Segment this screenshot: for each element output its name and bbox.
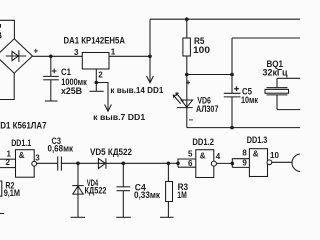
label C5 bbox=[241, 87, 258, 105]
connector circle right edge bbox=[292, 154, 310, 172]
svg-text:+: + bbox=[186, 78, 191, 87]
wire to DD1.2 input split bbox=[168, 162, 178, 164]
svg-text:+: + bbox=[34, 47, 39, 56]
wire to pin14 DD1 arrow bbox=[147, 56, 154, 82]
resistor R5 bbox=[183, 19, 191, 74]
svg-text:5: 5 bbox=[188, 150, 193, 159]
LED VD6 bbox=[173, 75, 192, 128]
label pin6 bbox=[188, 159, 193, 168]
svg-text:0,68мк: 0,68мк bbox=[48, 143, 74, 153]
node DD1.2 input junction bbox=[176, 162, 180, 166]
svg-text:1М: 1М bbox=[177, 190, 187, 200]
svg-text:6: 6 bbox=[188, 159, 193, 168]
svg-text:0,33мк: 0,33мк bbox=[134, 190, 160, 200]
wire to pin7 DD1 arrow bbox=[96, 83, 111, 112]
label BQ1 bbox=[263, 59, 288, 78]
svg-text:3: 3 bbox=[74, 48, 79, 57]
svg-text:х25В: х25В bbox=[61, 86, 82, 96]
label pin9 bbox=[242, 158, 247, 167]
svg-text:DD1.3: DD1.3 bbox=[247, 135, 267, 145]
svg-text:АЛ307: АЛ307 bbox=[196, 104, 219, 114]
label B input bbox=[0, 31, 3, 41]
gate DD1.3 bbox=[249, 149, 267, 177]
svg-text:С1: С1 bbox=[61, 67, 71, 77]
wire pin5 bbox=[178, 159, 196, 167]
ground C1 bbox=[45, 100, 58, 102]
wire top right stub bbox=[232, 37, 300, 39]
label C4 bbox=[134, 183, 160, 201]
ground R2 bbox=[0, 213, 4, 215]
svg-text:DD1.1: DD1.1 bbox=[11, 138, 31, 148]
ground R3 bbox=[160, 216, 174, 218]
wire pin8 bbox=[232, 159, 249, 168]
crystal BQ1 bbox=[265, 78, 289, 109]
capacitor C3 bbox=[58, 156, 62, 170]
wire BQ1 bottom to edge bbox=[277, 109, 300, 111]
node C4 junction bbox=[122, 162, 126, 166]
svg-text:2: 2 bbox=[6, 158, 11, 167]
label R3 bbox=[177, 182, 188, 200]
svg-text:+: + bbox=[234, 85, 239, 94]
wire C5 branch vertical bbox=[231, 38, 233, 93]
label к выв.14 DD1 bbox=[110, 86, 164, 95]
wire C3 to node bbox=[61, 162, 78, 164]
node C5 top junction bbox=[230, 73, 234, 77]
label + bridge bbox=[34, 47, 39, 56]
capacitor C1 bbox=[43, 56, 59, 100]
svg-text:32кГц: 32кГц bbox=[263, 68, 288, 78]
svg-text:100: 100 bbox=[193, 45, 210, 55]
ground DA1 bbox=[90, 83, 104, 92]
label amp DD1.2 bbox=[200, 151, 206, 160]
wire bridge + output bbox=[32, 55, 82, 57]
svg-text:8: 8 bbox=[242, 148, 247, 157]
label amp DD1.3 bbox=[253, 149, 259, 158]
capacitor C5 bbox=[224, 86, 241, 127]
node R5 top junction bbox=[185, 17, 189, 21]
node R3 junction bbox=[167, 162, 171, 166]
svg-text:4: 4 bbox=[216, 152, 221, 161]
ground C4 bbox=[116, 216, 131, 218]
label pin3 bbox=[35, 154, 40, 163]
wire DD1.3 output bbox=[272, 161, 292, 163]
label pin3 DA1 bbox=[74, 48, 79, 57]
label к выв.7 DD1 bbox=[93, 113, 146, 122]
label pin2 bbox=[6, 158, 11, 167]
label VD4 bbox=[85, 178, 107, 196]
gate DD1.1 bbox=[16, 150, 35, 178]
svg-text:9: 9 bbox=[242, 158, 247, 167]
gate DD1.2 bbox=[196, 150, 214, 178]
bridge diode symbol bbox=[6, 50, 27, 62]
svg-text:10: 10 bbox=[270, 151, 279, 160]
node junction C1 bbox=[49, 55, 53, 59]
wire pin2 down bbox=[95, 69, 97, 83]
label pin4 bbox=[216, 152, 221, 161]
label VD5 bbox=[90, 147, 132, 157]
wire AC input top-left bbox=[0, 20, 14, 39]
label DD1.2 bbox=[192, 137, 214, 147]
wire pin1 input bbox=[0, 158, 16, 160]
svg-text:VD5 КД522: VD5 КД522 bbox=[90, 147, 132, 157]
ground VD4 bbox=[71, 216, 85, 218]
resistor R2 bbox=[0, 181, 2, 196]
wire BQ1 top to edge bbox=[277, 77, 300, 79]
label pin1 DA1 bbox=[111, 48, 116, 57]
diode VD4 bbox=[72, 163, 83, 217]
wire DD1.2 output bbox=[216, 162, 232, 164]
svg-text:DD1.2: DD1.2 bbox=[192, 137, 214, 147]
wire up to top rail bbox=[149, 19, 151, 56]
resistor R3 bbox=[166, 163, 173, 217]
label pin5 bbox=[188, 150, 193, 159]
wire top power rail bbox=[150, 18, 300, 20]
wire pin1 output bbox=[109, 55, 150, 57]
svg-text:к выв.14 DD1: к выв.14 DD1 bbox=[110, 86, 164, 95]
wire R5 to C5 branch bbox=[187, 74, 232, 76]
node DD1.3 input junction bbox=[231, 162, 235, 166]
svg-text:3: 3 bbox=[35, 154, 40, 163]
label - LED bbox=[189, 116, 194, 125]
label VD6 bbox=[196, 95, 219, 114]
label DD1 type bbox=[0, 120, 47, 130]
label + C5 bbox=[234, 85, 239, 94]
capacitor C4 bbox=[117, 163, 131, 217]
wire pin9 bbox=[232, 166, 249, 168]
bridge rectifier VD1 diamond bbox=[0, 39, 32, 73]
label DD1.3 bbox=[247, 135, 267, 145]
pin3 bubble DD1.1 bbox=[32, 161, 37, 166]
svg-text:DD1 К561ЛА7: DD1 К561ЛА7 bbox=[0, 120, 47, 130]
wire DD1.1 output bbox=[37, 162, 58, 164]
label + LED bbox=[186, 78, 191, 87]
regulator DA1 box bbox=[82, 53, 109, 70]
label DD1.1 bbox=[11, 138, 31, 148]
svg-text:КД522: КД522 bbox=[85, 186, 107, 196]
svg-text:9,1М: 9,1М bbox=[4, 188, 20, 198]
label pin10 bbox=[270, 151, 279, 160]
node R5 bottom junction bbox=[185, 73, 189, 77]
node main plus junction bbox=[148, 55, 152, 59]
label R2 bbox=[4, 181, 20, 198]
node VD4 junction bbox=[76, 162, 80, 166]
svg-text:к выв.7 DD1: к выв.7 DD1 bbox=[93, 113, 146, 122]
svg-text:DA1 КР142ЕН5А: DA1 КР142ЕН5А bbox=[64, 36, 126, 46]
label C1 bbox=[61, 67, 87, 96]
svg-text:&: & bbox=[253, 149, 259, 158]
svg-text:−: − bbox=[189, 116, 194, 125]
svg-text:&: & bbox=[200, 151, 206, 160]
svg-text:10мк: 10мк bbox=[241, 95, 258, 105]
node pin2 junction bbox=[95, 81, 99, 85]
wire bridge bottom lead bbox=[0, 73, 14, 99]
label pin2 DA1 bbox=[98, 71, 103, 80]
wire pin6 bbox=[178, 166, 196, 168]
svg-text:2: 2 bbox=[98, 71, 103, 80]
pin10 bubble DD1.3 bbox=[267, 160, 272, 165]
label C3 bbox=[48, 136, 74, 153]
wire pin2 input bbox=[0, 167, 16, 169]
svg-text:1: 1 bbox=[111, 48, 116, 57]
label pin8 bbox=[242, 148, 247, 157]
node AC tick bbox=[0, 24, 2, 28]
pin4 bubble DD1.2 bbox=[211, 161, 216, 166]
svg-text:&: & bbox=[19, 151, 25, 160]
label DA1 bbox=[64, 36, 126, 46]
diode VD5 bbox=[78, 158, 168, 168]
node C5 rail junction bbox=[230, 126, 234, 130]
label R5 bbox=[193, 36, 210, 55]
ground rail bottom bbox=[187, 127, 300, 129]
label amp DD1.1 bbox=[19, 151, 25, 160]
label pin1 bbox=[7, 150, 12, 159]
